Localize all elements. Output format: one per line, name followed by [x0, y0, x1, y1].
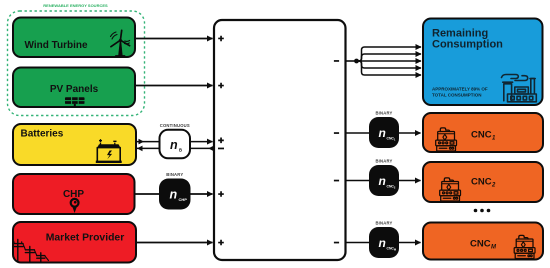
icon power poles	[13, 240, 49, 263]
svg-text:CONTINUOUS: CONTINUOUS	[160, 123, 190, 128]
node plus market input	[218, 240, 224, 246]
block CNC1	[423, 113, 543, 152]
gate nCNC2 binary	[369, 165, 399, 196]
node minus remaining consumption output	[334, 60, 339, 62]
block CNCM	[423, 223, 543, 260]
svg-text:2: 2	[491, 183, 496, 189]
wire fan branch 3	[357, 60, 422, 62]
block Remaining Consumption	[423, 19, 543, 106]
block Wind Turbine	[13, 18, 135, 58]
icon wind turbine	[111, 30, 130, 56]
node plus wind input	[218, 36, 224, 42]
wire battery to nB (top, rightward)	[136, 139, 159, 145]
node fan junction	[354, 59, 359, 64]
wire chp to nCHP	[135, 193, 160, 195]
wire bus to fan junction	[346, 60, 357, 62]
gate nCNC1 binary	[369, 117, 399, 148]
gate nCNCM binary	[369, 227, 399, 258]
icon battery	[96, 139, 122, 162]
block CNC2	[423, 162, 543, 202]
block Batteries	[13, 124, 136, 165]
svg-text:PV Panels: PV Panels	[50, 84, 99, 95]
wire fan branch 1	[357, 47, 422, 61]
svg-text:n: n	[379, 236, 386, 250]
svg-text:n: n	[170, 188, 178, 202]
bus energy balance box	[214, 20, 346, 260]
svg-text:CNC: CNC	[471, 177, 492, 188]
svg-text:n: n	[170, 138, 178, 152]
svg-text:TOTAL CONSUMPTION: TOTAL CONSUMPTION	[432, 93, 482, 98]
icon chp burner	[71, 199, 79, 213]
wire fan branch 5	[357, 61, 422, 75]
node plus-minus battery	[218, 138, 224, 150]
svg-text:Consumption: Consumption	[432, 39, 503, 51]
renewable energy sources dashed group	[8, 11, 145, 116]
gate nB continuous	[160, 130, 191, 159]
wire nCNC2 to CNC2	[399, 180, 421, 182]
svg-text:Batteries: Batteries	[21, 129, 64, 140]
svg-text:Wind Turbine: Wind Turbine	[25, 40, 88, 51]
wire wind turbine to bus	[135, 38, 213, 40]
icon solar panel	[65, 97, 85, 107]
svg-text:CNC: CNC	[471, 130, 492, 141]
wire pv panels to bus	[135, 85, 213, 87]
svg-text:BINARY: BINARY	[375, 111, 392, 116]
svg-text:RENEWABLE ENERGY SOURCES: RENEWABLE ENERGY SOURCES	[43, 3, 108, 8]
svg-text:CNC: CNC	[470, 239, 491, 250]
icon factory	[502, 75, 537, 102]
wire nCNC1 to CNC1	[399, 132, 421, 134]
svg-text:BINARY: BINARY	[375, 221, 392, 226]
svg-text:n: n	[379, 126, 386, 140]
wire nCHP to bus	[191, 193, 213, 195]
node plus chp input	[218, 191, 224, 197]
wire nCNCM to CNCM	[399, 242, 421, 244]
node plus pv input	[218, 83, 224, 89]
node minus cncM output	[334, 242, 339, 244]
icon cnc machine 1	[436, 128, 457, 151]
svg-text:APPROXIMATELY 89% OF: APPROXIMATELY 89% OF	[432, 87, 488, 92]
ellipsis between cnc2 and cncM	[474, 209, 491, 213]
icon cnc machine 2	[440, 178, 461, 201]
svg-text:BINARY: BINARY	[375, 159, 392, 164]
wire fan branch 2	[357, 54, 422, 61]
icon cnc machine M	[514, 235, 535, 258]
block CHP	[13, 174, 135, 214]
wire bus to nCNC2	[346, 180, 370, 182]
node minus cnc2 output	[334, 180, 339, 182]
gate nCHP binary	[159, 179, 191, 210]
wire nB to bus (top, rightward with arrow)	[191, 141, 213, 143]
wire nB to battery (bottom, leftward with arrow)	[137, 146, 160, 152]
block Market Provider	[13, 222, 136, 263]
svg-text:n: n	[379, 174, 386, 188]
svg-text:Market Provider: Market Provider	[46, 233, 125, 244]
wire bus to nCNCM	[346, 242, 370, 244]
node minus cnc1 output	[334, 132, 339, 134]
svg-text:CHP: CHP	[179, 197, 188, 202]
svg-text:B: B	[179, 148, 182, 153]
wire fan branch 4	[357, 61, 422, 68]
block PV Panels	[13, 68, 135, 108]
wire market provider to bus	[136, 242, 213, 244]
wire bus to nB (bottom, leftward with arrow)	[191, 146, 214, 152]
svg-text:BINARY: BINARY	[166, 172, 183, 177]
wire bus to nCNC1	[346, 132, 370, 134]
